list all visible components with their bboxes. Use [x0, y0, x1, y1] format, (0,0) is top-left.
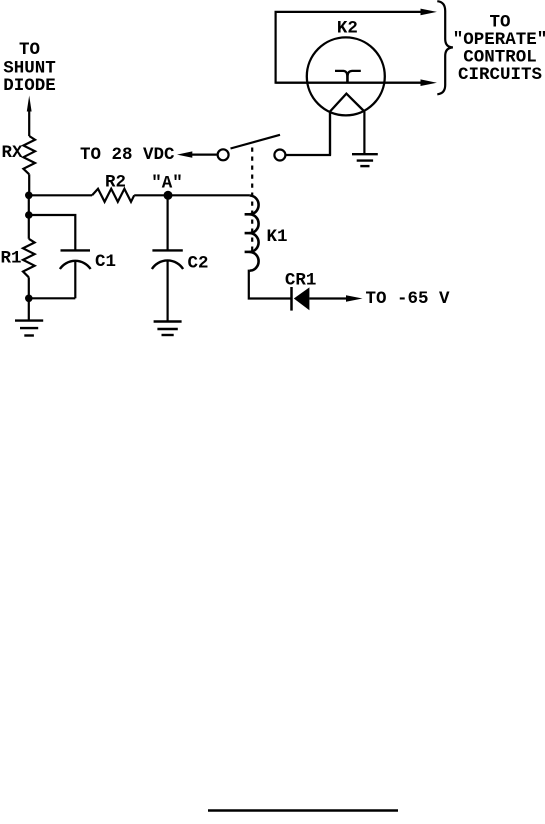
- K2 rectangle wires: [276, 12, 421, 83]
- switch contact 2: [274, 150, 285, 161]
- switch arm: [231, 135, 281, 149]
- arrow TO -65V: [346, 295, 363, 301]
- svg-text:CR1: CR1: [285, 271, 317, 291]
- svg-text:TO -65 V: TO -65 V: [366, 289, 451, 309]
- wire node A to K1: [168, 194, 250, 196]
- arrow TO 28 VDC: [177, 151, 192, 157]
- svg-text:CIRCUITS: CIRCUITS: [458, 65, 542, 85]
- svg-text:K1: K1: [267, 227, 288, 247]
- svg-text:C2: C2: [188, 254, 209, 274]
- ground K2: [352, 154, 378, 166]
- K2 left leg: [329, 112, 331, 156]
- wire C1 to bottom node: [29, 297, 76, 299]
- wire top shunt lead: [28, 110, 30, 136]
- svg-text:DIODE: DIODE: [3, 76, 56, 96]
- wire node2 to C1: [29, 215, 76, 250]
- relay K2 envelope: [307, 37, 385, 115]
- svg-text:R1: R1: [1, 248, 22, 268]
- wire through K2 circle: [276, 82, 421, 84]
- inductor K1: [250, 196, 259, 271]
- resistor R2: [92, 189, 134, 202]
- resistor R1: [23, 239, 35, 277]
- svg-text:TO 28 VDC: TO 28 VDC: [80, 145, 175, 165]
- wire node to R2: [29, 194, 92, 196]
- node dot 2: [25, 211, 33, 219]
- wire CR1 to arrow: [309, 297, 347, 299]
- K2 right leg: [363, 112, 365, 155]
- arrow operate top: [421, 9, 437, 16]
- wire node to node2: [28, 195, 30, 215]
- diode CR1 triangle: [294, 287, 310, 310]
- wire K1 to CR1: [249, 271, 292, 299]
- wire bottom node to ground: [28, 298, 30, 320]
- svg-text:K2: K2: [337, 19, 358, 39]
- node dot 1: [25, 192, 33, 200]
- ground left: [15, 321, 43, 336]
- node dot bottom: [25, 295, 33, 303]
- svg-text:TO: TO: [19, 40, 40, 60]
- capacitor C1: [61, 249, 91, 251]
- bottom rule: [208, 809, 398, 811]
- wire RX to node: [28, 174, 30, 196]
- dashed actuation line: [251, 148, 253, 253]
- switch contact 1: [218, 149, 229, 160]
- K2 chevron: [330, 94, 364, 112]
- wire R1 to bottom node: [28, 277, 30, 298]
- svg-text:RX: RX: [2, 143, 24, 163]
- K2 contact right hook: [348, 71, 361, 83]
- wire node2 to R1: [28, 215, 30, 239]
- ground C2: [154, 322, 182, 336]
- diode CR1: [290, 287, 293, 311]
- svg-text:C1: C1: [95, 252, 116, 272]
- svg-text:"A": "A": [151, 174, 183, 194]
- arrow operate bottom: [421, 79, 437, 86]
- wire contact2 to K2: [285, 112, 330, 156]
- svg-text:R2: R2: [105, 173, 126, 193]
- resistor RX: [23, 136, 35, 174]
- brace: [437, 1, 453, 94]
- arrow wire TO 28 VDC: [190, 154, 217, 156]
- node A dot: [164, 191, 173, 200]
- capacitor C2: [167, 195, 169, 250]
- wire R2 to node A: [134, 194, 168, 196]
- K2 contact left hook: [335, 71, 347, 83]
- arrow to shunt diode: [27, 96, 32, 112]
